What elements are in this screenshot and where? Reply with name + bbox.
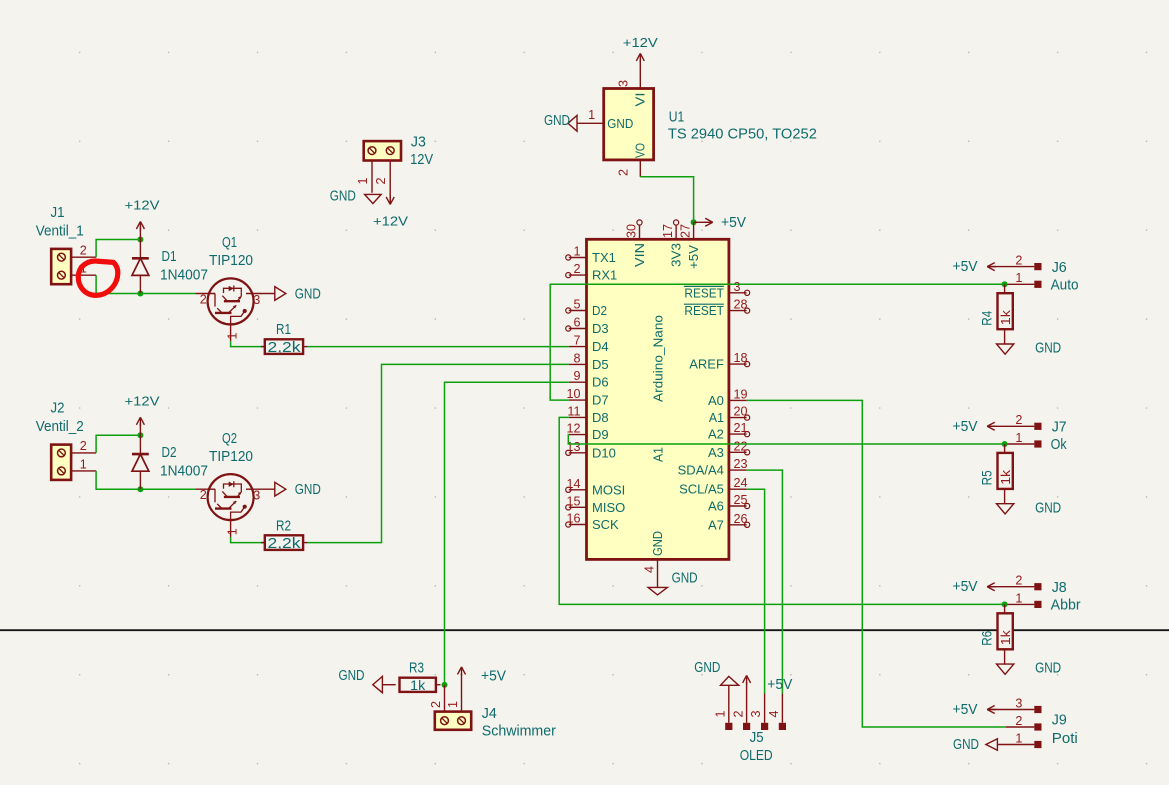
svg-text:2: 2 — [1015, 574, 1022, 588]
svg-text:Poti: Poti — [1052, 731, 1078, 747]
svg-text:J8: J8 — [1052, 580, 1067, 596]
svg-text:3: 3 — [1015, 696, 1022, 710]
svg-text:GND: GND — [295, 481, 321, 498]
svg-text:1: 1 — [588, 108, 595, 122]
power GND (Arduino 4) — [648, 570, 698, 595]
power +12V (J1) — [125, 198, 160, 240]
svg-text:R2: R2 — [276, 519, 291, 535]
svg-text:1: 1 — [1015, 591, 1022, 605]
power GND (Q1 emitter) — [275, 286, 321, 303]
svg-text:GND: GND — [650, 531, 665, 556]
svg-text:A0: A0 — [708, 393, 724, 408]
svg-text:SCL/A5: SCL/A5 — [679, 482, 724, 497]
junction +12V/D2 top — [137, 432, 143, 438]
resistor R6 1k — [978, 604, 1013, 664]
svg-text:+5V: +5V — [767, 676, 793, 693]
regulator U1 TS 2940 — [577, 80, 817, 177]
svg-text:1k: 1k — [999, 630, 1013, 646]
pin 18 AREF (right) — [689, 351, 749, 372]
wire J2.2 to +12V node — [96, 435, 140, 453]
power +12V (J3.2) — [373, 195, 408, 228]
svg-text:Schwimmer: Schwimmer — [482, 723, 556, 739]
pin 19 A0 (right) — [708, 387, 748, 408]
svg-text:8: 8 — [573, 351, 580, 365]
svg-text:D10: D10 — [592, 445, 616, 460]
svg-text:J4: J4 — [482, 706, 497, 722]
power +12V (U1 VI) — [623, 35, 658, 89]
svg-text:U1: U1 — [669, 109, 685, 125]
svg-text:3: 3 — [734, 280, 741, 294]
svg-text:3: 3 — [749, 710, 763, 717]
svg-text:VI: VI — [633, 93, 648, 107]
resistor R3 1k — [400, 661, 441, 694]
svg-text:6: 6 — [573, 316, 580, 330]
svg-text:1: 1 — [1015, 271, 1022, 285]
svg-text:1: 1 — [446, 701, 460, 708]
svg-text:GND: GND — [295, 286, 321, 303]
wire D2 node to Q2 collector — [140, 488, 195, 490]
svg-text:GND: GND — [953, 736, 979, 753]
svg-text:2: 2 — [1015, 413, 1022, 427]
svg-text:R6: R6 — [978, 631, 994, 646]
pin 4 GND (bottom) — [643, 531, 665, 587]
pin 3 RESET (right) — [684, 280, 750, 301]
svg-text:MISO: MISO — [592, 500, 625, 515]
svg-text:12: 12 — [566, 422, 580, 436]
svg-text:19: 19 — [734, 387, 748, 401]
svg-text:2: 2 — [573, 262, 580, 276]
svg-text:7: 7 — [573, 334, 580, 348]
svg-text:TS 2940 CP50, TO252: TS 2940 CP50, TO252 — [668, 126, 817, 142]
svg-text:A7: A7 — [708, 517, 724, 532]
sheet border line — [0, 629, 1169, 631]
svg-text:GND: GND — [607, 116, 633, 131]
pin 9 D6 (left) — [569, 369, 609, 390]
svg-text:RESET: RESET — [684, 303, 724, 318]
svg-text:20: 20 — [734, 405, 748, 419]
svg-text:+5V: +5V — [686, 245, 701, 269]
connector J3 12V — [356, 134, 434, 204]
svg-text:TX1: TX1 — [592, 250, 616, 265]
svg-text:D1: D1 — [162, 249, 177, 265]
transistor Q2 TIP120 — [195, 431, 274, 537]
svg-text:J2: J2 — [51, 401, 65, 417]
svg-text:27: 27 — [679, 224, 693, 238]
wire D8 to J8 Abbr — [559, 417, 1004, 604]
svg-text:R1: R1 — [276, 322, 291, 338]
svg-text:MOSI: MOSI — [592, 482, 625, 497]
pin 2 RX1 (left) — [566, 262, 618, 283]
svg-text:2: 2 — [1015, 714, 1022, 728]
junction +12V/D1 top — [137, 237, 143, 243]
svg-text:17: 17 — [661, 224, 675, 238]
svg-text:1: 1 — [226, 332, 240, 339]
diode D1 1N4007 — [132, 240, 208, 294]
transistor Q1 TIP120 — [195, 235, 274, 341]
pin 28 RESET (right) — [684, 298, 750, 319]
svg-text:R5: R5 — [978, 470, 994, 485]
pin 16 SCK (left) — [566, 512, 619, 533]
svg-text:D6: D6 — [592, 375, 609, 390]
svg-text:16: 16 — [566, 512, 580, 526]
junction D2 anode node — [137, 486, 143, 492]
svg-text:Arduino_Nano: Arduino_Nano — [651, 315, 666, 402]
svg-text:+12V: +12V — [623, 35, 658, 50]
wire Q1 base to R1 — [231, 341, 265, 346]
pin 8 D5 (left) — [569, 351, 609, 372]
svg-text:2: 2 — [1015, 254, 1022, 268]
svg-text:J7: J7 — [1052, 420, 1067, 436]
power +5V (J5.2) — [743, 675, 793, 692]
svg-text:GND: GND — [1035, 660, 1061, 677]
svg-text:D2: D2 — [592, 303, 607, 318]
svg-text:2: 2 — [429, 701, 443, 708]
svg-text:RESET: RESET — [684, 285, 724, 300]
svg-text:1N4007: 1N4007 — [160, 463, 208, 479]
connector J8 Abbr — [1005, 574, 1081, 614]
pin 1 TX1 (left) — [566, 245, 616, 266]
svg-text:SCK: SCK — [592, 517, 619, 532]
power +5V (J4.1) — [458, 667, 507, 712]
svg-text:21: 21 — [734, 421, 748, 435]
power GND (R4) — [997, 340, 1062, 357]
wire J1.2 to +12V node — [96, 240, 140, 258]
svg-text:GND: GND — [1035, 340, 1061, 357]
svg-text:1N4007: 1N4007 — [160, 268, 208, 284]
svg-text:1: 1 — [573, 245, 580, 259]
svg-text:AREF: AREF — [689, 357, 724, 372]
svg-text:+5V: +5V — [953, 578, 979, 595]
pin 26 A7 (right) — [708, 512, 750, 533]
svg-text:4: 4 — [643, 566, 657, 573]
wire SCL/A5 to J5.3 — [747, 489, 765, 693]
svg-text:12V: 12V — [410, 152, 433, 168]
svg-text:28: 28 — [734, 298, 748, 312]
svg-text:A1: A1 — [709, 410, 724, 425]
svg-text:11: 11 — [567, 404, 580, 418]
svg-text:GND: GND — [339, 667, 365, 684]
svg-text:Ok: Ok — [1051, 437, 1068, 453]
svg-text:VO: VO — [633, 143, 648, 158]
power +5V (J9.3) — [953, 701, 1035, 718]
pin 23 SDA/A4 (right) — [678, 457, 748, 478]
pin 10 D7 (left) — [566, 387, 608, 408]
svg-text:GND: GND — [672, 570, 698, 587]
svg-text:3: 3 — [253, 293, 260, 307]
svg-text:J1: J1 — [51, 205, 65, 221]
svg-text:+5V: +5V — [953, 418, 979, 435]
svg-text:1: 1 — [80, 457, 87, 471]
power GND (U1.1) — [544, 112, 577, 131]
svg-text:1: 1 — [226, 528, 240, 535]
svg-text:D7: D7 — [592, 393, 609, 408]
wire D6 to J4 — [445, 382, 569, 685]
svg-text:R4: R4 — [978, 311, 994, 326]
svg-text:D9: D9 — [592, 427, 609, 442]
pin 25 A6 (right) — [708, 493, 750, 514]
svg-text:A6: A6 — [708, 499, 724, 514]
connector J2 Ventil_2 — [36, 401, 96, 480]
pin 27 +5V (top) — [679, 222, 702, 269]
svg-text:26: 26 — [734, 512, 748, 526]
svg-text:1: 1 — [356, 177, 370, 184]
power GND (R5) — [997, 499, 1062, 516]
resistor R4 1k — [978, 284, 1013, 344]
pin 11 D8 (left) — [567, 404, 608, 425]
junction D1 anode node — [137, 291, 143, 297]
wire J1.1 to D1 anode node — [96, 275, 140, 293]
svg-text:D3: D3 — [592, 321, 609, 336]
junction J6.1 node — [1002, 281, 1008, 287]
power GND (R6) — [997, 660, 1062, 677]
wire U1 VO to +5V node — [640, 177, 693, 223]
junction +5V at pin 27 — [691, 219, 697, 225]
connector J6 Auto — [1005, 254, 1079, 294]
svg-text:2: 2 — [80, 244, 87, 258]
svg-text:23: 23 — [734, 457, 748, 471]
svg-text:RX1: RX1 — [592, 268, 617, 283]
svg-text:TIP120: TIP120 — [209, 449, 253, 465]
svg-text:9: 9 — [573, 369, 580, 383]
junction J4.2 node — [442, 682, 448, 688]
svg-text:+12V: +12V — [125, 393, 160, 408]
svg-text:+5V: +5V — [953, 258, 979, 275]
svg-text:J5: J5 — [750, 730, 764, 746]
wire R2 to D5 — [308, 364, 569, 542]
svg-text:D8: D8 — [592, 410, 609, 425]
svg-text:2,2k: 2,2k — [268, 536, 302, 552]
svg-text:2: 2 — [200, 488, 207, 502]
svg-text:D2: D2 — [162, 445, 177, 461]
pin 12 D9 (left) — [566, 422, 608, 443]
svg-text:Q2: Q2 — [222, 431, 237, 447]
power +5V (Arduino 27) — [694, 214, 747, 231]
svg-text:3: 3 — [253, 489, 260, 503]
resistor R5 1k — [978, 444, 1013, 504]
svg-text:GND: GND — [1035, 499, 1061, 516]
svg-text:2: 2 — [200, 293, 207, 307]
svg-text:GND: GND — [694, 659, 720, 676]
svg-text:TIP120: TIP120 — [209, 253, 253, 269]
svg-text:D4: D4 — [592, 339, 609, 354]
svg-text:Abbr: Abbr — [1051, 598, 1081, 614]
svg-text:SDA/A4: SDA/A4 — [678, 463, 724, 478]
pin 15 MISO (left) — [566, 494, 626, 515]
pin 17 3V3 (top) — [661, 220, 684, 267]
svg-text:15: 15 — [566, 494, 580, 508]
svg-text:25: 25 — [734, 493, 748, 507]
wire D1 node to Q1 collector — [140, 293, 195, 295]
svg-text:GND: GND — [544, 112, 570, 129]
svg-text:R3: R3 — [409, 661, 424, 677]
diode D2 1N4007 — [132, 435, 208, 489]
svg-text:GND: GND — [330, 188, 356, 205]
svg-text:A1: A1 — [651, 447, 666, 462]
svg-text:10: 10 — [566, 387, 580, 401]
svg-text:Ventil_1: Ventil_1 — [36, 224, 84, 240]
svg-text:18: 18 — [734, 351, 748, 365]
power +5V (J6.2) — [953, 258, 1035, 275]
wire D7 to J6 Auto — [550, 284, 1004, 400]
power GND (J9.1) — [953, 736, 997, 753]
svg-text:+5V: +5V — [481, 668, 507, 685]
power +5V (J8.2) — [953, 578, 1035, 595]
svg-text:1: 1 — [1015, 731, 1022, 745]
svg-text:J9: J9 — [1052, 712, 1067, 728]
power +12V (J2) — [125, 393, 160, 435]
power GND (Q2 emitter) — [275, 481, 321, 498]
junction J8.1 node — [1002, 601, 1008, 607]
svg-text:2: 2 — [374, 177, 388, 184]
svg-text:4: 4 — [767, 710, 781, 717]
red annotation mark — [78, 261, 118, 295]
pin 22 A3 (right) — [708, 439, 750, 460]
pin 13 D10 (left) — [566, 440, 616, 461]
svg-text:2,2k: 2,2k — [268, 340, 302, 356]
connector J9 Poti — [997, 696, 1077, 748]
svg-text:+5V: +5V — [953, 701, 979, 718]
svg-text:+12V: +12V — [125, 198, 160, 213]
svg-text:Q1: Q1 — [222, 235, 237, 251]
pin 20 A1 (right) — [709, 405, 750, 426]
pin 24 SCL/A5 (right) — [679, 476, 747, 497]
svg-text:2: 2 — [617, 169, 631, 176]
connector J5 OLED — [714, 682, 787, 764]
svg-text:J6: J6 — [1052, 260, 1067, 276]
power GND (R3) — [339, 667, 396, 693]
svg-text:VIN: VIN — [632, 243, 647, 267]
connector J1 Ventil_1 — [36, 205, 96, 284]
svg-text:1: 1 — [1015, 431, 1022, 445]
pin 30 VIN (top) — [625, 220, 648, 267]
pin 21 A2 (right) — [708, 421, 750, 442]
svg-text:+5V: +5V — [721, 214, 747, 231]
svg-text:1k: 1k — [999, 309, 1013, 325]
wire J2.1 to D2 anode node — [96, 471, 140, 489]
wire D9 to J7 Ok — [568, 435, 1005, 444]
wire Q2 base to R2 — [231, 537, 265, 543]
svg-text:A2: A2 — [708, 427, 724, 442]
pin 6 D3 (left) — [566, 316, 609, 337]
connector J7 Ok — [1005, 413, 1068, 453]
svg-text:OLED: OLED — [740, 748, 773, 764]
wire A0 to J9 Poti — [747, 400, 1006, 727]
wire SDA/A4 to J5.4 — [747, 470, 783, 693]
wire R1 to D4 — [308, 346, 569, 348]
power +5V (J7.2) — [953, 418, 1035, 435]
svg-text:Auto: Auto — [1051, 278, 1079, 294]
pin 5 D2 (left) — [566, 298, 607, 319]
power GND (J5.1) — [694, 659, 738, 685]
svg-text:1: 1 — [714, 710, 728, 717]
connector J4 Schwimmer — [429, 685, 556, 739]
svg-text:1k: 1k — [410, 678, 426, 694]
svg-text:24: 24 — [734, 476, 748, 490]
resistor R2 2,2k — [261, 519, 308, 552]
svg-text:Ventil_2: Ventil_2 — [36, 419, 84, 435]
svg-text:1k: 1k — [999, 469, 1013, 485]
svg-text:30: 30 — [625, 224, 639, 238]
svg-text:5: 5 — [573, 298, 580, 312]
svg-text:3V3: 3V3 — [669, 243, 684, 267]
pin 7 D4 (left) — [569, 334, 609, 355]
svg-text:14: 14 — [566, 477, 580, 491]
svg-text:3: 3 — [617, 80, 631, 87]
junction J7.1 node — [1002, 441, 1008, 447]
power GND (J3.1) — [330, 188, 381, 205]
pin 14 MOSI (left) — [566, 477, 626, 498]
svg-text:J3: J3 — [411, 134, 426, 150]
svg-text:+12V: +12V — [373, 213, 408, 228]
svg-text:A3: A3 — [708, 445, 724, 460]
svg-text:2: 2 — [80, 439, 87, 453]
MCU A1 Arduino_Nano — [587, 239, 729, 559]
svg-text:2: 2 — [731, 710, 745, 717]
svg-text:22: 22 — [734, 439, 748, 453]
svg-text:D5: D5 — [592, 357, 609, 372]
resistor R1 2,2k — [261, 322, 308, 356]
